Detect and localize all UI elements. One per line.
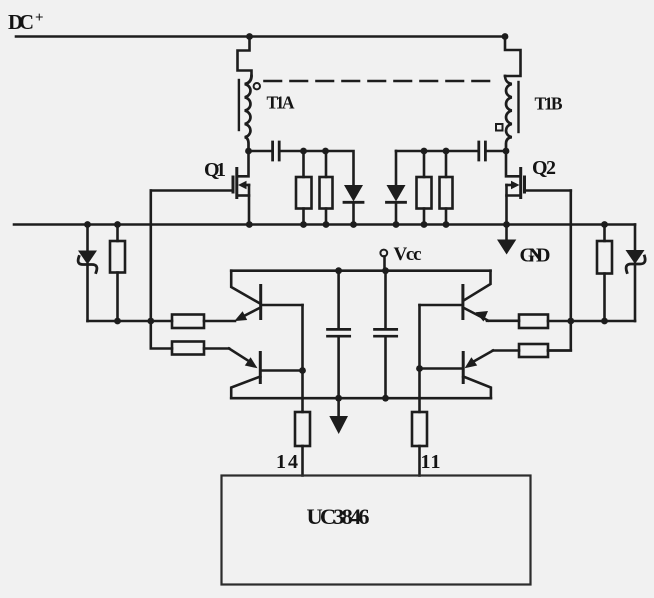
transistor V2 (lower left driver)	[229, 349, 303, 399]
svg-text:Q1: Q1	[204, 159, 226, 181]
node right base bus	[416, 365, 423, 372]
wire Vcc rail	[231, 269, 490, 272]
resistor R7	[172, 315, 204, 329]
node left base bus	[299, 367, 306, 374]
wire Q2 gate	[525, 189, 571, 192]
T1A core line	[238, 80, 240, 130]
node Vcc stem	[382, 267, 389, 274]
node Q1 source	[246, 221, 253, 228]
wire Q1 drain to cap	[249, 150, 272, 153]
node R2 top	[322, 148, 329, 155]
wire driver ground rail	[231, 397, 491, 400]
resistor R10	[519, 344, 548, 357]
node D2 bottom	[393, 221, 400, 228]
core coupling dashed line	[265, 80, 499, 83]
wire left base bus	[301, 305, 304, 412]
zener diode Z1	[86, 225, 89, 251]
transformer winding T1B	[505, 76, 512, 151]
Vcc terminal	[380, 250, 387, 257]
op-amp U1 UC3846 box	[222, 476, 531, 585]
node R1 bottom	[300, 221, 307, 228]
node R4 bottom	[443, 221, 450, 228]
wire Q1 gate	[151, 189, 233, 192]
resistor R5	[110, 241, 125, 273]
node R1 top	[300, 148, 307, 155]
node R3 bottom	[421, 221, 428, 228]
transformer winding T1A	[245, 76, 252, 151]
svg-text:Vcc: Vcc	[394, 244, 422, 265]
capacitor C2 (right series)	[479, 142, 486, 160]
node Q1 gate bus	[147, 318, 154, 325]
svg-text:11: 11	[421, 451, 441, 473]
svg-text:+: +	[35, 10, 44, 26]
resistor R2	[320, 177, 333, 209]
node R2 bottom	[323, 221, 330, 228]
svg-text:Q2: Q2	[532, 157, 556, 179]
wire snubber right top	[396, 150, 478, 153]
wire V3 emitter to R9	[487, 319, 519, 322]
resistor R8	[172, 342, 204, 355]
node R4 top	[443, 148, 450, 155]
node Q2 gate bus clamp	[567, 318, 574, 325]
ground symbol GND	[505, 225, 508, 240]
resistor R6	[597, 241, 612, 274]
wire R8 to lower emitter	[204, 347, 229, 350]
node Z1 rail	[84, 221, 91, 228]
wire R10 to gate bus	[548, 349, 571, 352]
capacitor C4	[384, 271, 387, 329]
svg-text:T1B: T1B	[535, 94, 563, 114]
wire Q2 gate bus	[548, 191, 571, 351]
transistor V1 (upper left driver)	[231, 271, 302, 321]
node top T1A junction	[246, 33, 253, 40]
svg-text:T1A: T1A	[267, 93, 295, 113]
transistor V4 (lower right driver)	[420, 351, 494, 399]
node R5 bottom	[114, 318, 121, 325]
node C3 bottom	[335, 395, 342, 402]
svg-text:DC: DC	[8, 10, 34, 34]
node Q1 drain	[245, 148, 252, 155]
capacitor C1 (left series)	[273, 142, 280, 160]
wire T1A top lead jog	[238, 37, 252, 77]
diode D1	[344, 185, 363, 202]
label DC+	[8, 10, 44, 34]
wire right base bus	[418, 305, 421, 412]
node Q2 source	[503, 221, 510, 228]
node C3 top	[335, 267, 342, 274]
wire T1B top lead jog	[505, 37, 521, 77]
node R5 rail	[114, 221, 121, 228]
svg-text:GND: GND	[520, 245, 551, 267]
transistor V3 (upper right driver)	[420, 271, 491, 322]
node R6 bottom	[601, 318, 608, 325]
wire cap to Q2 drain	[487, 150, 507, 153]
ground symbol (driver)	[337, 398, 340, 416]
capacitor C3	[337, 271, 340, 329]
transistor Q1 (MOSFET)	[233, 151, 249, 225]
resistor R12 (pin 11)	[412, 412, 427, 446]
T1B phase square	[496, 124, 503, 131]
resistor R4	[440, 177, 453, 209]
resistor R9	[519, 315, 548, 329]
transistor Q2 (MOSFET)	[506, 151, 525, 225]
wire right clamp bottom	[571, 320, 635, 323]
node D1 bottom	[350, 221, 357, 228]
node R3 top	[421, 148, 428, 155]
resistor R11 (pin 14)	[295, 412, 310, 446]
wire V4 emitter to R10	[493, 349, 519, 352]
wire source/GND rail	[14, 223, 635, 226]
wire snubber left top	[281, 151, 354, 185]
resistor R3	[417, 177, 432, 209]
resistor R1	[296, 177, 312, 209]
node R6 rail	[601, 221, 608, 228]
diode D2	[395, 151, 398, 185]
wire R9 to gate bus	[548, 320, 571, 323]
node Q2 drain	[503, 148, 510, 155]
wire left clamp bottom	[88, 320, 173, 323]
T1A phase dot	[254, 83, 260, 89]
T1B core line	[517, 82, 519, 132]
wire top DC+ rail	[16, 35, 505, 38]
zener diode Z2	[634, 225, 637, 251]
wire R7 to upper emitter	[204, 320, 235, 323]
node top T1B junction	[502, 33, 509, 40]
node C4 bottom	[382, 395, 389, 402]
svg-text:UC3846: UC3846	[307, 504, 370, 529]
wire Q1 gate bus	[151, 191, 172, 349]
